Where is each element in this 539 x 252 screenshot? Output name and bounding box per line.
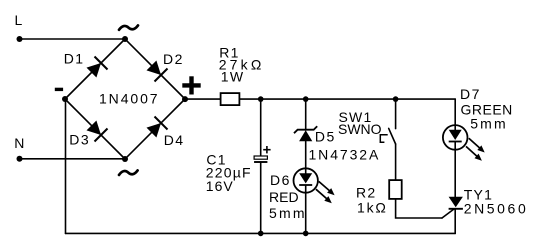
wire SW1 branch top — [395, 99, 397, 129]
wire C1 branch top — [260, 99, 262, 156]
resistor R2 — [389, 180, 402, 199]
wire R2 to gate corner — [396, 199, 442, 218]
node rail D5 junction — [303, 96, 309, 102]
node bottom rail D6 junction — [303, 231, 309, 237]
svg-text:5mm: 5mm — [269, 205, 307, 221]
svg-text:D7: D7 — [460, 86, 481, 102]
wire D6 to bottom rail — [305, 186, 307, 234]
resistor R1 — [221, 93, 240, 105]
svg-text:D1: D1 — [64, 50, 85, 66]
svg-text:N: N — [14, 135, 24, 151]
svg-text:5mm: 5mm — [470, 116, 508, 132]
wire L input — [20, 38, 126, 40]
AC tilde top — [119, 25, 138, 29]
node bridge plus — [182, 96, 188, 102]
diode D3 — [87, 121, 108, 142]
svg-text:L: L — [15, 12, 23, 28]
wire bottom rail — [66, 232, 456, 234]
wire bridge side bottom-right — [125, 99, 185, 159]
wire D5 branch top — [305, 99, 307, 130]
diode D2 — [147, 61, 168, 82]
wire SW1 lever — [389, 128, 396, 144]
node bridge AC bottom — [122, 156, 128, 162]
zener D5 — [294, 126, 317, 141]
node bridge AC top — [122, 36, 128, 42]
svg-text:R2: R2 — [356, 184, 377, 200]
wire D5 to D6 — [305, 141, 307, 173]
wire N input — [20, 158, 126, 160]
wire D7 anode to TY1 — [454, 142, 456, 197]
LED D6 — [294, 168, 335, 203]
svg-text:2N5060: 2N5060 — [464, 201, 529, 217]
thyristor TY1 — [449, 197, 463, 209]
plus sign bridge output — [182, 76, 200, 94]
svg-text:D5: D5 — [315, 129, 336, 145]
svg-text:D4: D4 — [164, 132, 185, 148]
wire gate diagonal — [442, 209, 454, 218]
LED D7 — [443, 125, 485, 161]
wire bridge side top-right — [125, 39, 185, 99]
node rail C1 junction — [258, 96, 264, 102]
wire corner down to D7 — [454, 99, 456, 130]
node bridge minus — [62, 96, 68, 102]
diode D1 — [87, 57, 108, 78]
svg-text:1N4007: 1N4007 — [99, 91, 159, 107]
capacitor C1 — [254, 146, 271, 162]
wire bridge side left-bottom — [65, 99, 125, 159]
svg-text:RED: RED — [269, 189, 299, 205]
minus sign bridge output — [55, 88, 63, 91]
switch SW1 — [380, 135, 387, 143]
svg-text:D3: D3 — [69, 132, 90, 148]
svg-text:D6: D6 — [270, 172, 291, 188]
diode D4 — [147, 117, 168, 138]
wire bridge side left-top — [65, 39, 125, 99]
svg-text:1W: 1W — [221, 68, 245, 84]
svg-text:1kΩ: 1kΩ — [357, 200, 388, 216]
wire SW1 to R2 — [395, 144, 397, 180]
svg-text:16V: 16V — [206, 178, 234, 194]
node N terminal — [17, 156, 23, 162]
node bottom rail C1 junction — [258, 231, 264, 237]
svg-text:1N4732A: 1N4732A — [309, 147, 381, 163]
wire main rail to R1 — [185, 98, 221, 100]
svg-text:D2: D2 — [163, 51, 184, 67]
svg-text:SWNO: SWNO — [338, 121, 382, 137]
wire minus terminal down — [65, 99, 67, 233]
node rail SW1 junction — [393, 96, 399, 102]
AC tilde bottom — [119, 170, 138, 175]
wire C1 branch bottom — [260, 162, 262, 233]
wire R1 to corner — [239, 98, 455, 100]
node L terminal — [17, 36, 23, 42]
wire TY1 cathode down — [454, 210, 456, 234]
